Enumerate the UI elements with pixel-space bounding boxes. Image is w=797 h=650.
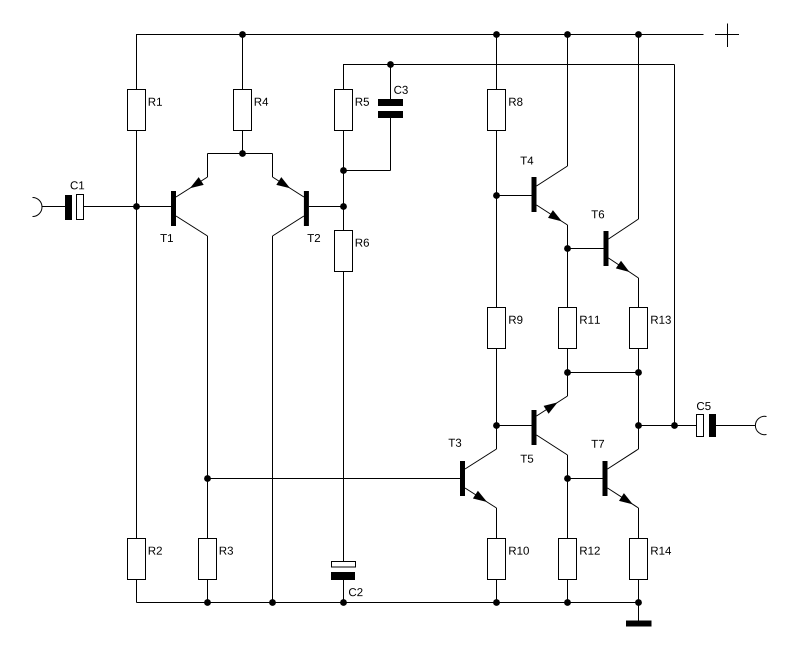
node R11 bottom / T5 emitter xyxy=(564,369,571,376)
resistor R14 xyxy=(630,539,672,580)
node output node xyxy=(635,422,642,429)
node bottom rail / R14 / ground xyxy=(635,599,642,606)
node T5 base / T3 collector xyxy=(493,422,500,429)
wire R5/R6/C2 column xyxy=(343,89,345,561)
wire T7 base xyxy=(568,478,603,480)
node bottom rail / R12 xyxy=(564,599,571,606)
wire T6 emitter to R13 and output node xyxy=(638,278,640,449)
capacitor C5 xyxy=(697,402,717,437)
node bottom rail / T2 collector xyxy=(269,599,276,606)
node R4 / emitter rail xyxy=(239,150,246,157)
input connector xyxy=(33,198,43,217)
power + (positive supply) xyxy=(715,24,739,48)
transistor T6 xyxy=(591,210,638,278)
wire input to C1 xyxy=(42,206,65,208)
wire R5 top lead xyxy=(343,65,345,90)
resistor R10 xyxy=(488,539,529,580)
node top rail / T6 collector xyxy=(635,31,642,38)
wire second rail from R5/C3 top to output column xyxy=(343,64,675,66)
capacitor C3 xyxy=(378,86,408,118)
node T6 base xyxy=(564,245,571,252)
resistor R9 xyxy=(488,308,523,349)
wire R8/R9 column xyxy=(496,35,498,450)
wire +V top rail xyxy=(136,34,704,36)
node T4 base xyxy=(493,192,500,199)
resistor R11 xyxy=(559,308,600,349)
resistor R3 xyxy=(199,539,233,580)
resistor R4 xyxy=(234,90,269,131)
capacitor C1 xyxy=(65,181,84,220)
node T3 base tap xyxy=(204,475,211,482)
wire C2 bottom lead xyxy=(343,580,345,603)
transistor T3 xyxy=(449,439,497,508)
wire R1/R2 column xyxy=(136,35,138,603)
node R13 bottom node xyxy=(635,369,642,376)
wire T3 emitter to R10 xyxy=(496,508,498,603)
wire T4 emitter to R11 xyxy=(567,225,569,396)
node top rail / R8 xyxy=(493,31,500,38)
resistor R12 xyxy=(559,539,600,580)
wire C5 to output connector xyxy=(716,425,756,427)
wire C3 bottom lead xyxy=(390,118,392,171)
wire T2 emitter vertical xyxy=(272,154,274,178)
wire T6 collector column xyxy=(638,35,640,220)
wire T5 collector to R12 xyxy=(567,455,569,603)
node T7 base xyxy=(564,475,571,482)
wire output node to C5 xyxy=(639,425,697,427)
wire bottom rail xyxy=(137,602,639,604)
wire R4 top lead xyxy=(242,35,244,90)
wire emitter rail T1-T2 xyxy=(208,153,273,155)
wire C3 to R5 bottom xyxy=(344,170,391,172)
transistor T7 xyxy=(591,440,638,508)
ground xyxy=(626,621,652,627)
node top rail / R4 xyxy=(239,31,246,38)
node bottom rail / C2 xyxy=(340,599,347,606)
wire C3 top lead xyxy=(390,65,392,100)
resistor R2 xyxy=(128,539,162,580)
resistor R5 xyxy=(335,90,370,131)
wire T2 base xyxy=(309,206,344,208)
node R5 bottom / C3 xyxy=(340,167,347,174)
node input / T1 base xyxy=(133,203,140,210)
node bottom rail / R10 xyxy=(493,599,500,606)
transistor T5 xyxy=(521,396,568,463)
wire T1 emitter vertical xyxy=(207,154,209,178)
node top rail / T4 collector xyxy=(564,31,571,38)
resistor R13 xyxy=(630,308,671,349)
resistor R8 xyxy=(488,90,523,131)
wire T1 collector column to R3 xyxy=(207,236,209,603)
resistor R6 xyxy=(335,231,369,272)
wire T5 base xyxy=(497,425,532,427)
wire node row R11-R13 xyxy=(568,372,639,374)
wire T7 emitter to R14 and ground xyxy=(638,508,640,621)
transistor T1 (PNP) xyxy=(160,177,207,242)
transistor T2 (PNP) xyxy=(273,177,321,242)
wire T6 base xyxy=(568,248,604,250)
node output node / drop wire xyxy=(671,422,678,429)
wire T4 collector column xyxy=(567,35,569,167)
transistor T4 xyxy=(520,157,567,225)
resistor R1 xyxy=(128,90,162,131)
node T2 base / R6 xyxy=(340,203,347,210)
wire T2 collector column xyxy=(272,236,274,603)
wire T4 base xyxy=(497,195,532,197)
wire C1 to T1 base xyxy=(84,206,172,208)
node bottom rail / R3 xyxy=(204,599,211,606)
output connector xyxy=(755,416,766,434)
wire T3 base long run xyxy=(208,478,461,480)
capacitor C2 xyxy=(331,562,363,597)
node C3 top xyxy=(387,61,394,68)
wire output column drop xyxy=(674,65,676,426)
wire R4 bottom lead xyxy=(242,131,244,154)
